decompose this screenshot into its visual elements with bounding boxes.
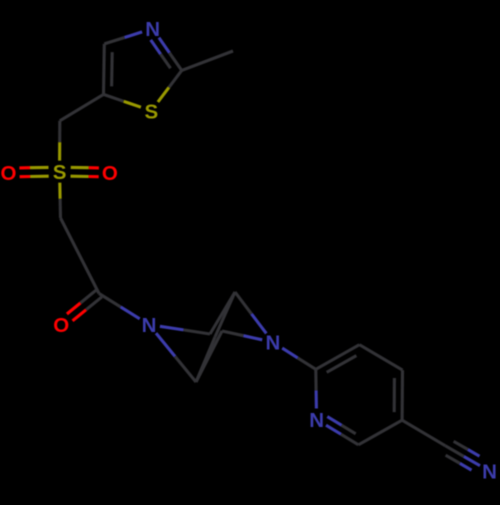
svg-text:N: N: [145, 18, 160, 41]
svg-text:O: O: [53, 314, 69, 337]
svg-text:O: O: [102, 162, 118, 185]
svg-text:S: S: [53, 161, 67, 184]
svg-text:N: N: [142, 314, 157, 337]
svg-text:O: O: [1, 162, 17, 185]
svg-text:N: N: [309, 409, 324, 432]
svg-text:N: N: [265, 332, 280, 355]
svg-text:N: N: [482, 461, 497, 484]
svg-text:S: S: [144, 100, 158, 123]
